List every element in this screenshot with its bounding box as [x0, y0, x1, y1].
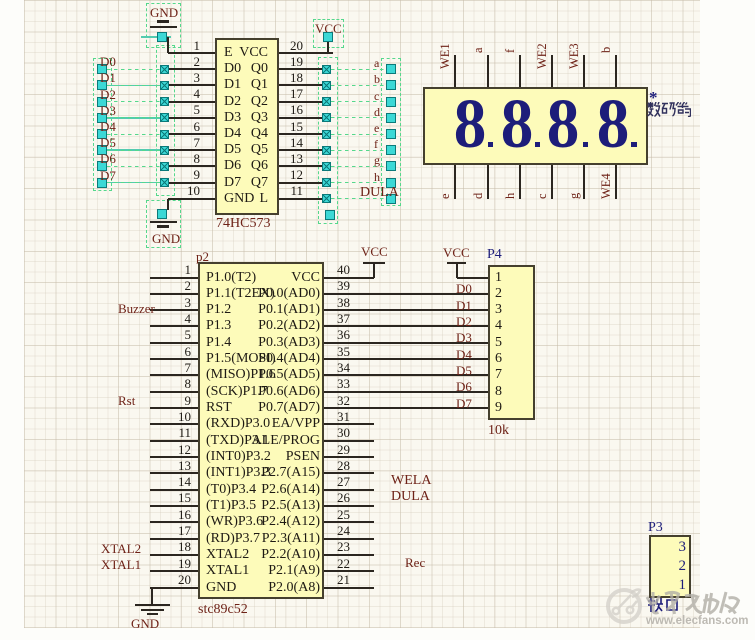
- pin name U2 right row 12: [120, 450, 320, 464]
- wire U1 pin 2: [169, 68, 215, 70]
- pin name U2 left row 6: [206, 352, 276, 366]
- wire U1 pin 1: [168, 52, 215, 54]
- wire U2 pin 27: [324, 489, 374, 491]
- pad U1 pin 2: [160, 65, 169, 74]
- wire U1 pin 13: [279, 165, 322, 167]
- pin name U2 right row 7: [120, 368, 320, 382]
- pin name U1 left row 8: [224, 159, 241, 173]
- pin name U1 left row 2: [224, 62, 241, 76]
- selection box left port column: [93, 58, 112, 191]
- pin name U2 right row 9: [120, 401, 320, 415]
- pin name U2 right row 16: [120, 515, 320, 529]
- pin number U1-6: [0, 120, 200, 133]
- wire U2 pin 6: [150, 358, 198, 360]
- net label f: [374, 138, 378, 150]
- pin name U2 left row 20: [206, 581, 236, 595]
- pin name U1 left row 4: [224, 95, 241, 109]
- net label XTAL2: [101, 542, 141, 555]
- wire U1 pin 3: [169, 84, 215, 86]
- wire U2 pin 17: [150, 538, 198, 540]
- pin number U1-1: [0, 39, 200, 52]
- pin name P4-8: [495, 385, 502, 399]
- power text GND top: [150, 6, 178, 19]
- ground bar 3 U2: [147, 613, 158, 615]
- pin number U2-22: [337, 557, 350, 570]
- net label D0: [100, 55, 116, 68]
- decimal dot #4: [631, 142, 637, 148]
- wire net D7 overlay: [107, 182, 160, 183]
- pad U1 pin 19: [322, 65, 331, 74]
- pin name U1 left row 1: [224, 46, 233, 60]
- pin number U1-5: [0, 103, 200, 116]
- net label D1: [100, 71, 116, 84]
- pin number U2-24: [337, 524, 350, 537]
- net label b: [374, 73, 380, 85]
- wire U2 pin 14: [150, 489, 198, 491]
- wire U2 pin 7: [150, 374, 198, 376]
- pad U1 pin 18: [322, 81, 331, 90]
- pad U1 pin 8: [160, 162, 169, 171]
- wire U2 pin 12: [150, 456, 198, 458]
- pin name U2 left row 17: [206, 532, 260, 546]
- connector P3 body: [649, 535, 691, 598]
- wire U2 pin 23: [324, 554, 374, 556]
- port square d: [386, 113, 396, 123]
- net label D6 (bus to P4): [456, 380, 472, 393]
- pad U1 pin 13: [322, 162, 331, 171]
- digit 8 #3: [535, 90, 591, 160]
- pin name P4-6: [495, 352, 502, 366]
- pin number U2-4: [0, 312, 191, 325]
- pin name P4-9: [495, 401, 502, 415]
- wire U1 pin 20: [279, 52, 333, 54]
- port square D4: [97, 129, 107, 139]
- designator P4: [487, 248, 502, 262]
- pin name U1 right row 6: [68, 127, 268, 141]
- pin name U2 left row 12: [206, 450, 271, 464]
- pin number U2-12: [0, 443, 191, 456]
- wire U2 pin 30: [324, 440, 374, 442]
- pin number U2-18: [0, 540, 191, 553]
- pin number U1-11: [103, 184, 303, 197]
- wire U2 pin 36: [324, 342, 490, 344]
- pin number U2-40: [337, 263, 350, 276]
- pin number U2-9: [0, 394, 191, 407]
- wire U1 pin 17: [279, 101, 322, 103]
- pin number U2-20: [0, 573, 191, 586]
- wire net D1 overlay: [107, 85, 160, 86]
- pin name U2 right row 19: [120, 564, 320, 578]
- port square D0: [97, 64, 107, 74]
- pin number U1-13: [103, 152, 303, 165]
- digit 8 #2: [489, 90, 545, 160]
- wire U2 pin 37: [324, 325, 490, 327]
- display pin bottom 3: [519, 165, 521, 199]
- ground bar wide bottom GND: [150, 221, 177, 223]
- net label D7: [100, 169, 116, 182]
- display DS1 body: [423, 87, 648, 165]
- port square e: [386, 129, 396, 139]
- wire U2 pin 3: [150, 309, 198, 311]
- wire U2 gnd vertical: [151, 588, 153, 604]
- wire U2 pin 16: [150, 521, 198, 523]
- wire U1 pin 9: [169, 182, 215, 184]
- pin number U2-10: [0, 410, 191, 423]
- pin number U1-3: [0, 71, 200, 84]
- wire U1 pin1 vertical: [167, 37, 169, 53]
- pin number U1-7: [0, 136, 200, 149]
- selection box around top VCC: [313, 19, 344, 48]
- wire net h dashed: [331, 182, 386, 183]
- pin label h (bottom): [504, 193, 517, 199]
- wire net e dashed: [331, 134, 386, 135]
- pin number U1-16: [103, 103, 303, 116]
- wire net d dashed: [331, 117, 386, 118]
- pin label d (bottom): [472, 193, 485, 199]
- connector P4 body: [488, 265, 535, 420]
- pin name U1 right row 8: [68, 159, 268, 173]
- pin name U1 left row 7: [224, 143, 241, 157]
- wire U1 pin 19: [279, 68, 322, 70]
- wire net D3 overlay: [107, 117, 160, 118]
- wire net c dashed: [331, 101, 386, 102]
- pin number U2-29: [337, 443, 350, 456]
- pin name U1 right row 9: [68, 176, 268, 190]
- pad U1 pin 16: [322, 113, 331, 122]
- selection box bottom GND: [146, 200, 181, 248]
- pin name U2 right row 15: [120, 499, 320, 513]
- port square D6: [97, 161, 107, 171]
- power text VCC top: [315, 22, 342, 35]
- pin number U2-2: [0, 279, 191, 292]
- wire U1 pin 8: [169, 165, 215, 167]
- port square D2: [97, 97, 107, 107]
- pin name U2 right row 11: [120, 434, 320, 448]
- pin name U1 right row 4: [68, 95, 268, 109]
- pin number U2-11: [0, 426, 191, 439]
- selection box left pad column: [156, 45, 175, 196]
- wire U2 pin 2: [150, 293, 198, 295]
- net label D6: [100, 152, 116, 165]
- pin number U2-34: [337, 361, 350, 374]
- display pin bottom 4: [551, 165, 553, 199]
- pin number U1-4: [0, 87, 200, 100]
- net label D0 (bus to P4): [456, 282, 472, 295]
- wire U2 pin 4: [150, 325, 198, 327]
- pin number U2-38: [337, 296, 350, 309]
- power text GND U2: [131, 617, 159, 630]
- pin name U2 right row 6: [120, 352, 320, 366]
- port square D1: [97, 80, 107, 90]
- pin number U1-14: [103, 136, 303, 149]
- net label e: [374, 122, 379, 134]
- pin name U2 left row 18: [206, 548, 249, 562]
- ground bar 1 U2: [135, 604, 170, 606]
- watermark logo circle: [606, 588, 642, 624]
- wire U2 pin 5: [150, 342, 198, 344]
- pin name U2 left row 15: [206, 499, 256, 513]
- pad U1 pin 12: [322, 178, 331, 187]
- wire U2 pin 39: [324, 293, 490, 295]
- wire net f dashed: [331, 150, 386, 151]
- wire U2 pin 29: [324, 456, 374, 458]
- pin name U2 right row 10: [120, 417, 320, 431]
- port square h: [386, 178, 396, 188]
- pin number U2-37: [337, 312, 350, 325]
- pin number U2-14: [0, 475, 191, 488]
- wire U2 pin 33: [324, 391, 490, 393]
- digit 8 #1: [442, 90, 498, 160]
- wire net D5 teal: [107, 149, 160, 151]
- pin name P4-5: [495, 336, 502, 350]
- digit 8 #4: [585, 90, 641, 160]
- pin number U1-12: [103, 168, 303, 181]
- display pin top 1: [454, 55, 456, 87]
- port square DULA: [386, 194, 396, 204]
- stray square below right pads: [325, 210, 335, 220]
- pad U1 pin 17: [322, 97, 331, 106]
- pin name U2 left row 19: [206, 564, 249, 578]
- power text GND bottom: [152, 232, 180, 245]
- wire net D3 teal: [107, 117, 160, 119]
- pin name U2 left row 16: [206, 515, 263, 529]
- pin name U2 right row 3: [120, 303, 320, 317]
- net label DULA: [391, 490, 430, 504]
- wire U2 pin 20: [150, 587, 198, 589]
- port square c: [386, 97, 396, 107]
- pin name P4-2: [495, 287, 502, 301]
- net label D1 (bus to P4): [456, 299, 472, 312]
- pin label b (top): [600, 47, 613, 53]
- pin number U2-1: [0, 263, 191, 276]
- pin name U2 left row 7: [206, 368, 276, 382]
- pin name U2 right row 1: [120, 271, 320, 285]
- wire U2 pin 1: [150, 277, 198, 279]
- wire U2 pin 10: [150, 423, 198, 425]
- pin name U2 right row 8: [120, 385, 320, 399]
- pin number U2-31: [337, 410, 350, 423]
- pin label WE4 (bottom): [600, 173, 613, 199]
- pin name P3-3: [486, 540, 686, 555]
- pad U1 pin 6: [160, 130, 169, 139]
- pin label e (bottom): [439, 193, 452, 199]
- IC U1 74HC573 body: [215, 38, 279, 215]
- port square b: [386, 80, 396, 90]
- net label h: [374, 171, 380, 183]
- pin name U2 left row 14: [206, 483, 256, 497]
- wire U2 pin 15: [150, 505, 198, 507]
- pin number U2-19: [0, 557, 191, 570]
- pin label WE3 (top): [568, 43, 581, 69]
- display pin top 3: [519, 55, 521, 87]
- pin number U2-5: [0, 328, 191, 341]
- pin label g (bottom): [568, 193, 581, 199]
- wire net D4 dashed: [107, 134, 160, 135]
- pin name U1 left row 6: [224, 127, 241, 141]
- annotation 数码管 (digital tube): [647, 102, 691, 117]
- wire net g dashed: [331, 166, 386, 167]
- designator stc89c52: [198, 603, 248, 617]
- net label Rst: [118, 394, 135, 407]
- port square D5: [97, 145, 107, 155]
- port square g: [386, 161, 396, 171]
- selection box right pad column: [318, 57, 338, 224]
- wire U2 pin 24: [324, 538, 374, 540]
- net label Rec: [405, 556, 425, 569]
- pin name U1 right row 3: [68, 78, 268, 92]
- port square D3: [97, 113, 107, 123]
- pin name U1 right row 5: [68, 111, 268, 125]
- pin name U2 right row 14: [120, 483, 320, 497]
- wire U1 pin 14: [279, 149, 322, 151]
- pin number U1-9: [0, 168, 200, 181]
- pin number U1-19: [103, 55, 303, 68]
- pin number U2-30: [337, 426, 350, 439]
- wire net a dashed: [331, 69, 386, 70]
- display pin top 5: [583, 55, 585, 87]
- ground bar 2 U2: [141, 609, 164, 611]
- ground bar wide top GND: [150, 26, 177, 28]
- wire U2 pin 13: [150, 472, 198, 474]
- IC U2 stc89c52 body: [198, 262, 324, 599]
- pin name U1 right row 1: [68, 46, 268, 60]
- wire net D0 dashed: [107, 69, 160, 70]
- decimal dot #3: [583, 142, 589, 148]
- watermark logo inner marks: [606, 586, 646, 626]
- pin name P3-1: [486, 578, 686, 593]
- wire U2 pin 38: [324, 309, 490, 311]
- net label D7 (bus to P4): [456, 397, 472, 410]
- pin number U1-2: [0, 55, 200, 68]
- wire U2 pin 9: [150, 407, 198, 409]
- wire net D1 teal: [107, 85, 160, 87]
- selection box around top GND: [146, 3, 181, 48]
- pin name U1 left row 5: [224, 111, 241, 125]
- wire VCC P4 horizontal: [457, 277, 489, 279]
- wire U1 pin 4: [169, 101, 215, 103]
- wire U2 pin 25: [324, 521, 374, 523]
- value label 10k: [488, 424, 509, 438]
- wire U1 pin 16: [279, 117, 322, 119]
- VCC T-bar U2: [363, 262, 385, 264]
- pin name P4-7: [495, 368, 502, 382]
- wire U1 pin 15: [279, 133, 322, 135]
- display pin top 2: [487, 55, 489, 87]
- pin name U2 left row 11: [206, 434, 269, 448]
- display pin top 4: [551, 55, 553, 87]
- pin name U2 right row 20: [120, 581, 320, 595]
- pin number U1-8: [0, 152, 200, 165]
- pin number U2-8: [0, 377, 191, 390]
- display pin top 6: [615, 55, 617, 87]
- net label D5 (bus to P4): [456, 364, 472, 377]
- wire U2 pin 26: [324, 505, 374, 507]
- pin name U2 left row 9: [206, 401, 232, 415]
- pin name P4-1: [495, 271, 502, 285]
- wire U2 pin 11: [150, 440, 198, 442]
- wire U1 pin 11: [279, 198, 322, 200]
- designator U1 74HC573: [216, 217, 270, 231]
- pin label c (bottom): [536, 193, 549, 199]
- wire net D7 teal: [107, 182, 160, 184]
- pin number U2-27: [337, 475, 350, 488]
- pin number U2-35: [337, 345, 350, 358]
- net label D4: [100, 120, 116, 133]
- wire VCC P4 vertical: [456, 263, 458, 278]
- net label XTAL1: [101, 558, 141, 571]
- pin label f (top): [504, 49, 517, 53]
- pin number U2-33: [337, 377, 350, 390]
- pad U1 pin 5: [160, 113, 169, 122]
- net label D3: [100, 104, 116, 117]
- wire U1 pin 5: [169, 117, 215, 119]
- pin name U2 left row 10: [206, 417, 270, 431]
- pin number U1-15: [103, 120, 303, 133]
- wire U2 pin 34: [324, 374, 490, 376]
- pad U1 pin 9: [160, 178, 169, 187]
- pin name U2 right row 2: [120, 287, 320, 301]
- display pin bottom 2: [487, 165, 489, 199]
- wire U2 pin 22: [324, 570, 374, 572]
- pad U1 pin 3: [160, 81, 169, 90]
- junction square top GND: [157, 32, 167, 42]
- pin number U2-7: [0, 361, 191, 374]
- port square a: [386, 64, 396, 74]
- pin number U1-18: [103, 71, 303, 84]
- junction square top VCC: [323, 32, 333, 42]
- pin label WE1 (top): [439, 43, 452, 69]
- designator p2: [196, 250, 209, 263]
- wire U1 pin 6: [169, 133, 215, 135]
- wire net D6 dashed: [107, 166, 160, 167]
- pin name P4-4: [495, 319, 502, 333]
- pin number U2-3: [0, 296, 191, 309]
- pin name U1 left row 9: [224, 176, 241, 190]
- net label DULA: [360, 186, 399, 200]
- pin label a (top): [472, 47, 485, 53]
- pin number U2-25: [337, 508, 350, 521]
- pad U1 pin 7: [160, 146, 169, 155]
- wire U2 pin 40: [324, 277, 374, 279]
- pin name U2 left row 1: [206, 271, 256, 285]
- pin name U1 left row 10: [224, 192, 254, 206]
- wire U1 pin 18: [279, 84, 322, 86]
- wire U2 pin 8: [150, 391, 198, 393]
- pin name U1 right row 10: [68, 192, 268, 206]
- pin name U2 right row 5: [120, 336, 320, 350]
- pad U1 pin 14: [322, 146, 331, 155]
- ground bar short bottom GND: [157, 225, 169, 228]
- pin name U2 left row 13: [206, 466, 271, 480]
- wire VCC U2 vertical: [373, 264, 375, 278]
- wire U1 pin 7: [169, 149, 215, 151]
- selection box right port column: [381, 58, 401, 206]
- wire net DULA dashed: [331, 198, 386, 199]
- net label D3 (bus to P4): [456, 331, 472, 344]
- net label WELA: [391, 474, 431, 488]
- port square f: [386, 145, 396, 155]
- junction square bottom GND: [157, 209, 167, 219]
- pin name U2 left row 2: [206, 287, 275, 301]
- pin number U2-16: [0, 508, 191, 521]
- pin name U1 right row 7: [68, 143, 268, 157]
- net label g: [374, 154, 380, 166]
- pin name P4-3: [495, 303, 502, 317]
- pin name U2 right row 13: [120, 466, 320, 480]
- display pin bottom 6: [615, 165, 617, 199]
- pad U1 pin 15: [322, 130, 331, 139]
- pin number U2-15: [0, 491, 191, 504]
